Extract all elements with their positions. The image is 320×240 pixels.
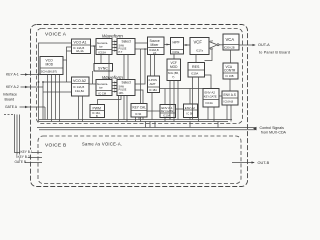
svg-text:AMT: AMT (150, 82, 156, 86)
wire sync riser top (94, 46, 96, 64)
block waveform select bottom (117, 80, 135, 96)
svg-text:IC10A: IC10A (163, 114, 170, 118)
svg-text:VOICE B: VOICE B (45, 143, 67, 149)
wire ENV AS to VCA CONTR (229, 79, 231, 91)
wire ENV AS down (227, 105, 231, 122)
svg-text:CONTR: CONTR (224, 69, 236, 73)
svg-text:Select: Select (122, 81, 131, 85)
wire generator top to bottom link (108, 55, 110, 80)
svg-text:MOD: MOD (170, 65, 178, 69)
svg-text:VCO A2: VCO A2 (73, 79, 86, 83)
svg-text:IC 19B: IC 19B (226, 74, 234, 78)
svg-text:IC CM: IC CM (98, 91, 107, 95)
wire PWM link (98, 96, 122, 105)
svg-text:KEY A-2: KEY A-2 (6, 85, 19, 89)
wires VCO A2 outputs down (79, 96, 83, 122)
block waveform generator top (96, 39, 112, 55)
svg-text:VCO A1: VCO A1 (74, 41, 87, 45)
label KEY B-1 (20, 150, 33, 155)
block ENV A1 (160, 105, 176, 118)
block VCO A1 (72, 39, 91, 54)
svg-text:HPF: HPF (173, 41, 181, 45)
svg-text:IC15a: IC15a (173, 51, 180, 54)
svg-text:Mixer: Mixer (151, 43, 160, 47)
svg-text:KEY B-1: KEY B-1 (21, 150, 33, 154)
block 4-POS AMT (148, 76, 160, 93)
wires select bottom down (119, 96, 128, 122)
wire select top outputs (135, 43, 148, 49)
outer dashed frame (31, 25, 248, 187)
svg-text:IC 9b: IC 9b (135, 112, 142, 116)
label KEY B-2 (17, 155, 30, 160)
wire VCO MOD to VCOs (43, 47, 72, 92)
block waveform generator bottom (96, 80, 112, 96)
wire GATE A (20, 106, 46, 120)
wires generator to select bottom (112, 82, 117, 93)
control bus from MUX line 1 (37, 127, 256, 129)
svg-text:B: B (96, 114, 98, 118)
svg-text:IC13A: IC13A (206, 101, 213, 105)
svg-text:SCH.(B6,B7): SCH.(B6,B7) (41, 69, 57, 73)
bus line 1 (39, 119, 232, 121)
svg-text:7): 7) (172, 75, 174, 79)
wire VCA CONTR to VCA (230, 50, 232, 63)
wires select top down (124, 55, 128, 80)
svg-text:KEY B-2: KEY B-2 (18, 155, 30, 159)
wire ENV AD to ENV AS (219, 95, 222, 97)
block VCO A2 (72, 77, 90, 96)
wire select bottom outputs up to mixer (135, 48, 146, 121)
svg-text:Board: Board (5, 98, 15, 102)
svg-text:VCF: VCF (194, 40, 203, 45)
label OUT-A (258, 43, 290, 55)
wires ENV AD down (208, 107, 214, 122)
svg-text:IC15A: IC15A (98, 50, 106, 54)
block KEY CAL (131, 104, 147, 118)
label Waveform bottom (102, 75, 123, 80)
voice A dashed box (37, 29, 243, 124)
control bus arrowhead (253, 127, 257, 131)
svg-text:KEY CAL: KEY CAL (133, 106, 147, 110)
wire generator to sync (100, 55, 102, 64)
svg-text:OUT-B: OUT-B (258, 161, 270, 165)
block VCO MOD (40, 57, 63, 75)
svg-text:OUT-A: OUT-A (258, 43, 270, 47)
wire mixer to HPF (164, 44, 170, 46)
svg-text:Control Signals: Control Signals (260, 126, 285, 130)
block ENV A2 (184, 104, 198, 118)
wire ENV A1 to ENV A2 (176, 108, 184, 110)
svg-text:tor: tor (99, 45, 103, 49)
label Interface Board (3, 93, 17, 102)
wire sync riser bottom (92, 71, 94, 84)
wires KEY CAL down (136, 117, 140, 122)
block waveform select top (117, 39, 135, 55)
block source mixer (148, 37, 165, 55)
bus line 2 (39, 121, 229, 123)
wire VCF MOD to HPF (173, 54, 175, 59)
wires mixer to 4-POS (151, 55, 155, 77)
block VCA CONTR (223, 63, 238, 79)
svg-text:SCH.(B6,: SCH.(B6, (168, 71, 179, 75)
wire RES down (193, 77, 199, 122)
svg-text:IC17a: IC17a (196, 49, 203, 53)
wire HPF to VCF (184, 44, 191, 46)
svg-text:from MUX-CDA: from MUX-CDA (261, 130, 287, 134)
wire ENV A2 down (189, 118, 191, 120)
block RES (188, 63, 205, 78)
voice B dashed box (38, 136, 241, 184)
svg-text:H.T: H.T (119, 51, 123, 54)
svg-text:IC16A,B: IC16A,B (224, 99, 234, 103)
wire riser key A-2 (38, 81, 72, 119)
wire KEY A-1 (21, 73, 39, 75)
bus taps up (146, 122, 219, 128)
svg-text:KEY A-1: KEY A-1 (6, 73, 19, 77)
svg-text:KEY,GATE: KEY,GATE (161, 109, 174, 113)
svg-text:SYNC: SYNC (98, 66, 108, 70)
block VCF (190, 38, 209, 55)
wires generator to select top (112, 41, 117, 52)
label Waveform top (102, 34, 123, 39)
label OUT-B (258, 161, 270, 165)
svg-text:ENV A.S: ENV A.S (224, 93, 236, 97)
wire dashed stub from interface (4, 114, 15, 116)
wire gate distribution (160, 89, 204, 105)
svg-text:to Panel B Board: to Panel B Board (259, 51, 290, 55)
block SYNC (94, 64, 113, 72)
label GATE B (14, 160, 26, 165)
svg-text:tor: tor (99, 86, 103, 90)
filter mode switch (205, 40, 224, 61)
svg-text:2A: 2A (153, 51, 156, 55)
block ENV AD keygate (203, 89, 219, 108)
svg-text:Interface: Interface (3, 93, 17, 97)
block ENV AS (222, 91, 238, 105)
label control signals (260, 126, 287, 135)
block VCF MOD (167, 59, 181, 81)
svg-text:RES: RES (192, 65, 200, 69)
svg-text:VOICE A: VOICE A (45, 32, 67, 38)
wire VCO A1 to generator (91, 45, 97, 47)
svg-text:GATE B: GATE B (15, 160, 26, 164)
wire VCO A2 to generator bottom (89, 83, 96, 85)
label KEY A-1 (6, 73, 19, 77)
wire 4-POS down (151, 93, 153, 120)
wire KEY A-2 (21, 86, 44, 88)
wire KEY CAL to ENV A1 (147, 110, 160, 112)
control bus from MUX line 2 (39, 129, 256, 131)
block VCA (223, 34, 239, 50)
label KEY A-2 (6, 85, 19, 89)
wires VCO MOD outputs down (48, 75, 60, 122)
svg-text:VCA: VCA (226, 37, 235, 42)
wire VCA output (239, 44, 256, 46)
svg-text:MOD: MOD (46, 63, 54, 67)
svg-text:IC 18A: IC 18A (149, 88, 157, 92)
svg-text:GATE A: GATE A (5, 105, 18, 109)
wire riser key A-1 (38, 43, 72, 122)
svg-text:PWM: PWM (93, 106, 101, 110)
wires key B risers (15, 115, 43, 163)
block PWM (90, 105, 105, 119)
svg-text:Waveform: Waveform (102, 34, 123, 39)
wires VCF MOD down (170, 81, 178, 122)
svg-text:KEY,GATE: KEY,GATE (204, 95, 217, 99)
svg-text:Same As VOICE-A.: Same As VOICE-A. (82, 142, 122, 147)
svg-text:3A,4A: 3A,4A (76, 49, 84, 53)
svg-text:ENV A2: ENV A2 (205, 91, 216, 95)
svg-text:IC20A,2B: IC20A,2B (224, 47, 235, 50)
svg-text:13A,8A: 13A,8A (75, 89, 84, 93)
wires ENV A1 down (165, 118, 170, 122)
svg-text:ENV A2: ENV A2 (185, 106, 196, 110)
block HPF (171, 38, 184, 55)
wire ENV AD up (205, 75, 212, 89)
svg-text:Select: Select (122, 40, 131, 44)
wire OUT-B (232, 161, 255, 163)
svg-text:IC19A: IC19A (191, 72, 198, 76)
wire RES to VCF (195, 55, 197, 63)
label GATE A (5, 105, 18, 109)
